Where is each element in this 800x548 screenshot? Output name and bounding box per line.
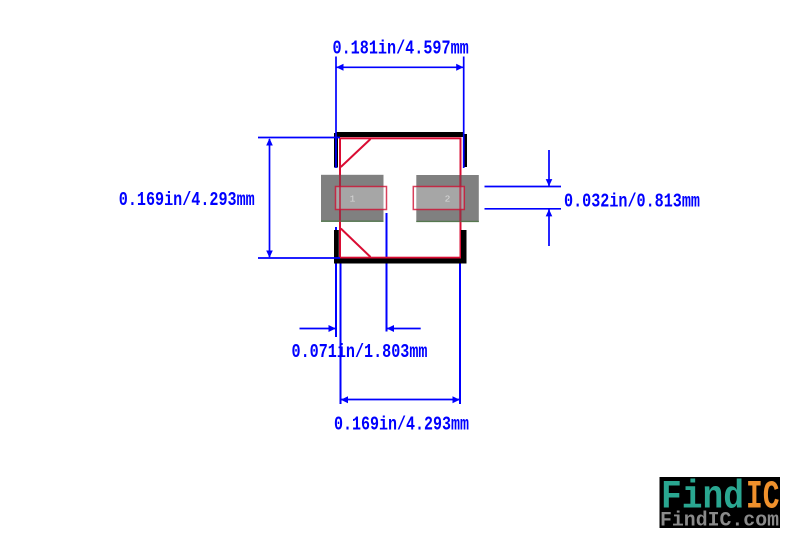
arrow right-down xyxy=(546,179,553,186)
wire: extension line pad-left (0.071in dim, under silkscreen) xyxy=(335,227,337,337)
svg-text:0.071in/1.803mm: 0.071in/1.803mm xyxy=(292,341,428,363)
pad 1 (copper) xyxy=(321,175,384,222)
arrow 0.071 right (pointing left) xyxy=(387,325,394,332)
silkscreen bottom bar xyxy=(335,259,465,264)
polarity mark: bottom-left diagonal xyxy=(341,229,371,258)
silkscreen left-top bar xyxy=(334,133,338,168)
silkscreen right-top bar xyxy=(464,134,468,167)
wire: right dim upper extension xyxy=(485,186,562,188)
wire: right dim lower extension xyxy=(485,208,562,210)
silkscreen left-bottom bar xyxy=(334,230,339,264)
dimension: left height 0.169in xyxy=(258,138,340,259)
wire: extension line body-left (0.169in bottom dim, under silkscreen) xyxy=(340,259,342,404)
arrow top-right xyxy=(456,64,463,71)
wire: top dim line xyxy=(336,66,464,68)
dimension: top width 0.181in xyxy=(336,57,464,169)
arrow left-bottom xyxy=(266,251,273,258)
wire: top dim right extension xyxy=(463,57,465,169)
dimension: pad width 0.071in xyxy=(300,328,421,330)
wire: 0.071 dim left segment xyxy=(300,328,337,330)
arrow right-up xyxy=(546,209,553,216)
arrow top-left xyxy=(336,64,343,71)
svg-text:0.181in/4.597mm: 0.181in/4.597mm xyxy=(333,38,469,60)
body right edge over pad 2 xyxy=(459,175,461,222)
svg-text:0.169in/4.293mm: 0.169in/4.293mm xyxy=(334,414,469,436)
pad 2 solder-mask overlay xyxy=(413,187,464,210)
wire: left dim vertical line xyxy=(269,139,271,257)
wire: 0.071 dim right segment xyxy=(387,328,421,330)
pad 2 assembly edge (green) xyxy=(416,220,479,222)
wire: left dim top extension xyxy=(258,137,340,139)
pad 2 (copper) xyxy=(416,175,479,222)
arrow 0.071 left (pointing right) xyxy=(329,325,336,332)
dimension: bottom width 0.169in xyxy=(341,399,461,401)
svg-text:0.032in/0.813mm: 0.032in/0.813mm xyxy=(564,191,700,213)
svg-text:FindIC.com: FindIC.com xyxy=(660,510,779,533)
wire: extension line pad1-right (0.071in dim) xyxy=(386,213,388,332)
dimension: right 0.032in xyxy=(485,150,562,246)
svg-text:0.169in/4.293mm: 0.169in/4.293mm xyxy=(119,189,255,211)
body left edge over pad 1 xyxy=(339,175,341,222)
arrow bottom-right xyxy=(453,396,460,403)
wire: left dim bottom extension xyxy=(258,257,340,259)
pad 1 assembly edge (green) xyxy=(321,220,384,222)
wire: right dim upper vertical xyxy=(548,150,550,186)
svg-text:1: 1 xyxy=(350,194,356,205)
arrow bottom-left xyxy=(341,396,348,403)
polarity mark: top-left diagonal xyxy=(341,139,371,167)
component body outline (courtyard, red) xyxy=(340,138,461,257)
wire: top dim left extension xyxy=(335,57,337,169)
wire: right dim lower vertical xyxy=(548,210,550,247)
svg-text:2: 2 xyxy=(445,194,451,205)
arrow left-top xyxy=(266,138,273,145)
wire: extension line body-right (0.169in bottom dim, under silkscreen) xyxy=(459,259,461,404)
pad 1 solder-mask overlay xyxy=(336,187,387,210)
wire: bottom dim line xyxy=(341,399,461,401)
silkscreen right-bottom bar xyxy=(461,230,467,264)
silkscreen top bar xyxy=(337,132,465,137)
logo: FindIC xyxy=(660,476,781,533)
